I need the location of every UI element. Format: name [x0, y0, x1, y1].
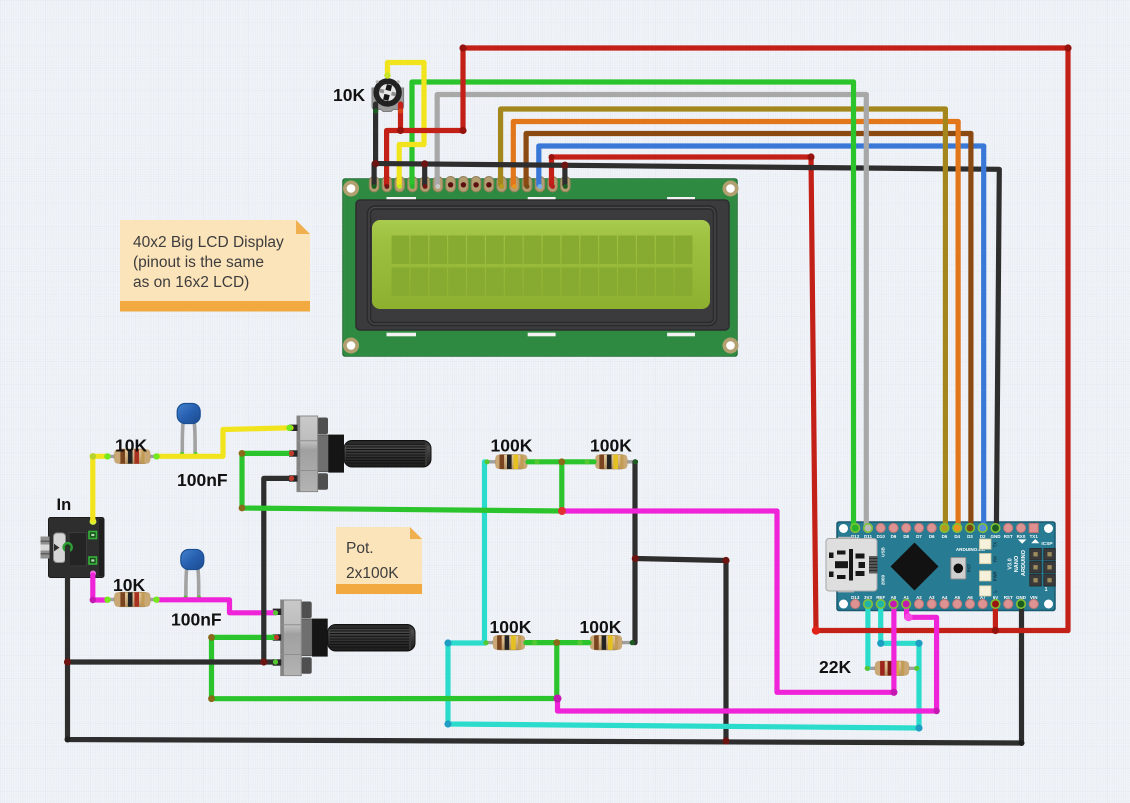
Arduino USB / 2009 silkscreen [881, 546, 886, 585]
wire yellow trimmer wiper to LCD pin3 [388, 63, 425, 186]
wire magenta divider to Arduino A0 [562, 511, 894, 692]
capacitor C2 100nF [181, 550, 204, 600]
LCD pin header slots 1-16 [369, 177, 570, 192]
wire orange LCD pin12 run [513, 122, 958, 186]
svg-text:2009: 2009 [881, 574, 886, 585]
svg-text:D2: D2 [980, 534, 986, 539]
label 100K R3 [491, 436, 533, 456]
svg-text:RST: RST [1004, 534, 1013, 539]
wire red 5V net: LCD pin2, trimmer, top loop [387, 48, 1068, 631]
wire dark-yellow vertical to Arduino D5 [943, 109, 948, 528]
wire green lower divider mid link [526, 640, 589, 645]
svg-text:D10: D10 [877, 534, 886, 539]
Arduino bottom pin labels [851, 595, 1037, 600]
svg-text:D3: D3 [967, 534, 973, 539]
svg-text:VIN: VIN [1030, 595, 1038, 600]
svg-text:100nF: 100nF [171, 610, 222, 630]
wire cyan 3V3 to 22K [865, 604, 870, 668]
resistor R6 100K (lower right) [579, 635, 633, 649]
wire green lower divider vertical [554, 643, 559, 699]
svg-text:10K: 10K [333, 85, 365, 105]
LCD module 40x2 board [343, 179, 737, 356]
wire green LCD pin4 D4 horizontal run [412, 82, 854, 185]
svg-text:TX: TX [993, 542, 998, 548]
svg-text:D13: D13 [851, 595, 860, 600]
Arduino pin pads bottom row [851, 599, 1039, 608]
audio jack In [41, 518, 105, 578]
svg-text:D8: D8 [903, 534, 909, 539]
svg-text:A5: A5 [954, 595, 960, 600]
red junction dots bottom [812, 626, 999, 634]
svg-text:1: 1 [1044, 587, 1047, 593]
wire gray LCD pin6 horizontal run [437, 95, 866, 186]
svg-text:USB: USB [881, 546, 886, 556]
svg-text:D7: D7 [916, 534, 922, 539]
Arduino pin pads top row [851, 523, 1039, 532]
svg-text:V3.0: V3.0 [1008, 558, 1014, 570]
svg-text:100K: 100K [491, 436, 533, 456]
black junction dots left [64, 658, 1025, 746]
wire brown vertical to Arduino D3 [968, 134, 973, 529]
svg-text:ICSP: ICSP [1041, 541, 1053, 547]
wire cyan REF bias loop [448, 604, 919, 728]
trimmer wiper tip dot [373, 72, 403, 113]
Arduino top pin labels [851, 534, 1038, 539]
svg-text:100nF: 100nF [177, 470, 228, 490]
label In [57, 496, 72, 514]
wire gray vertical to Arduino D11 [864, 95, 869, 529]
trimmer potentiometer 10K body [372, 78, 404, 111]
LCD glass screen [372, 220, 710, 309]
label 10K R1 [115, 435, 147, 455]
svg-text:RST: RST [1004, 595, 1013, 600]
LCD pin wire tips [372, 184, 568, 189]
svg-text:22K: 22K [819, 657, 851, 677]
svg-text:A6: A6 [967, 595, 973, 600]
wire red 5V bottom rail [816, 628, 1068, 633]
wire black GND top rail [374, 104, 999, 528]
label 10K R2 [113, 575, 145, 595]
svg-text:D6: D6 [929, 534, 935, 539]
svg-text:NANO: NANO [1014, 555, 1020, 572]
resistor/cap lead tips green [273, 451, 920, 671]
LCD mounting holes [343, 181, 739, 354]
wire blue LCD pin14 run [539, 146, 984, 185]
wire green vertical to Arduino D12 [851, 82, 856, 528]
potentiometer 100K (upper) [289, 416, 431, 492]
wire magenta divider to Arduino A1 [558, 604, 937, 711]
wire green upper divider mid link [528, 459, 594, 464]
Tx Rx PWR L LEDs [980, 539, 998, 596]
svg-text:RX: RX [993, 556, 998, 562]
resistor R3 100K (upper left) [486, 455, 536, 469]
potentiometer 100K (lower) [273, 600, 415, 676]
svg-text:100K: 100K [490, 617, 532, 637]
svg-text:L: L [993, 590, 998, 593]
svg-text:D9: D9 [891, 534, 897, 539]
resistor R4 100K (upper right) [586, 455, 636, 469]
wire black pot1 pin3 down to ground branch [264, 478, 290, 662]
svg-text:A4: A4 [942, 595, 948, 600]
svg-text:(pinout is the same: (pinout is the same [133, 254, 264, 271]
note: Pot. 2x100K [336, 527, 422, 594]
Arduino mounting holes [839, 524, 1053, 609]
wire dark-yellow LCD pin11 run [501, 109, 946, 185]
wire green upper divider vertical [559, 462, 564, 511]
svg-text:D4: D4 [954, 534, 960, 539]
magenta junction dots [554, 507, 940, 714]
wire orange vertical to Arduino D4 [955, 122, 960, 529]
capacitor C1 100nF [177, 404, 200, 456]
Arduino MCU chip (diamond) [891, 543, 939, 591]
svg-text:A2: A2 [916, 595, 922, 600]
wire yellow jack tip to pot1 pin1 [93, 428, 291, 520]
ARDUINO.CC silkscreen [956, 547, 986, 552]
label 22K R7 [819, 657, 851, 677]
note: 40x2 Big LCD Display [120, 220, 310, 312]
wire black divider ground to bottom rail [636, 559, 727, 742]
wire green pot2 wiper horizontal to divider junction [212, 696, 558, 701]
svg-text:as on 16x2 LCD): as on 16x2 LCD) [133, 274, 249, 291]
svg-text:40x2 Big LCD Display: 40x2 Big LCD Display [133, 234, 284, 251]
Arduino Nano board [837, 522, 1055, 611]
svg-text:PWR: PWR [993, 571, 998, 581]
label 100nF C1 [177, 470, 228, 490]
wire red 5V stub to Arduino 5V [993, 604, 998, 631]
wire green pot1 wiper to divider junction [242, 453, 562, 511]
junction dots on GND top rail [372, 160, 569, 169]
red junction dots top [397, 44, 1072, 160]
wire cyan 100K top column [482, 462, 487, 643]
green junction dots [208, 450, 565, 702]
wire magenta jack ring to pot2 pin1 [93, 575, 276, 613]
wire brown LCD pin13 run [526, 134, 971, 186]
label 100K R5 [490, 617, 532, 637]
Arduino mini-USB connector [826, 537, 878, 593]
resistor R7 22K [867, 661, 918, 675]
svg-text:A3: A3 [929, 595, 935, 600]
resistor R1 10K (upper input) [107, 449, 157, 463]
ARDUINO NANO V3.0 silkscreen [1008, 549, 1027, 576]
label 10K trimmer [333, 85, 365, 105]
Arduino connected pad rings [851, 524, 1025, 608]
reset button [951, 558, 972, 580]
svg-text:10K: 10K [115, 435, 147, 455]
resistor R2 10K (lower input) [107, 592, 157, 606]
wire blue vertical to Arduino D2 [981, 146, 986, 528]
yellow wire end dots [90, 425, 293, 460]
svg-text:100K: 100K [580, 617, 622, 637]
wire green pot2 wiper vertical part [212, 637, 276, 698]
svg-text:TX1: TX1 [1030, 534, 1039, 539]
svg-text:D5: D5 [942, 534, 948, 539]
label 100K R4 [590, 436, 632, 456]
cyan wire end dots [444, 639, 922, 731]
svg-text:GND: GND [990, 534, 1001, 539]
svg-text:In: In [57, 496, 72, 514]
wire black 100K divider ground vertical [632, 462, 637, 643]
RX/TX arrow marks [1018, 539, 1039, 544]
magenta wire end dots lower-left [90, 597, 160, 604]
label 100K R6 [580, 617, 622, 637]
svg-text:100K: 100K [590, 436, 632, 456]
LCD silkscreen dashes [387, 197, 696, 336]
wire black pot ground: jack sleeve rail [68, 549, 1022, 743]
LCD bezel [356, 200, 729, 330]
resistor R5 100K (lower left) [484, 635, 534, 649]
svg-text:RST: RST [967, 563, 972, 572]
LCD character cells 16x2 [392, 236, 693, 297]
black junction dots divider [632, 555, 730, 745]
svg-text:10K: 10K [113, 575, 145, 595]
svg-text:RX0: RX0 [1017, 534, 1026, 539]
label 100nF C2 [171, 610, 222, 630]
svg-text:2x100K: 2x100K [346, 565, 399, 582]
svg-text:ARDUINO: ARDUINO [1021, 549, 1027, 576]
ICSP header [1030, 541, 1056, 593]
svg-text:Pot.: Pot. [346, 540, 374, 557]
wire red 5V net: LCD pin15 backlight drop [552, 157, 817, 631]
wire black ground branch to pot2 pin3 [68, 659, 275, 664]
